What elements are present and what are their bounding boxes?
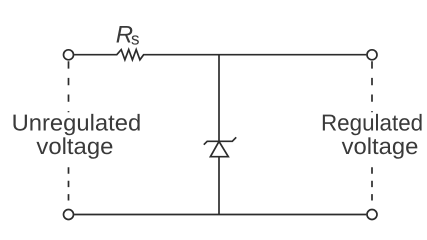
svg-text:Regulated: Regulated — [321, 109, 423, 135]
zener diode D1 cathode bar — [204, 137, 236, 144]
dashed lead right upper — [371, 61, 373, 112]
zener diode D1 anode triangle — [210, 141, 228, 156]
dashed lead right lower — [371, 167, 373, 200]
terminal top-right — [367, 50, 377, 60]
svg-text:voltage: voltage — [36, 133, 113, 159]
wire bottom — [74, 214, 366, 216]
terminal bottom-right — [367, 210, 377, 220]
svg-text:Unregulated: Unregulated — [12, 109, 142, 135]
terminal top-left — [64, 50, 74, 60]
wire top with resistor Rs zigzag — [74, 50, 366, 60]
dashed lead left lower — [68, 167, 70, 200]
wire from zener anode down to bottom wire — [218, 157, 220, 215]
dashed lead left upper — [68, 61, 70, 112]
wire from top node down to zener cathode — [218, 56, 220, 142]
svg-text:voltage: voltage — [342, 133, 419, 159]
svg-text:s: s — [131, 30, 140, 49]
terminal bottom-left — [64, 210, 74, 220]
